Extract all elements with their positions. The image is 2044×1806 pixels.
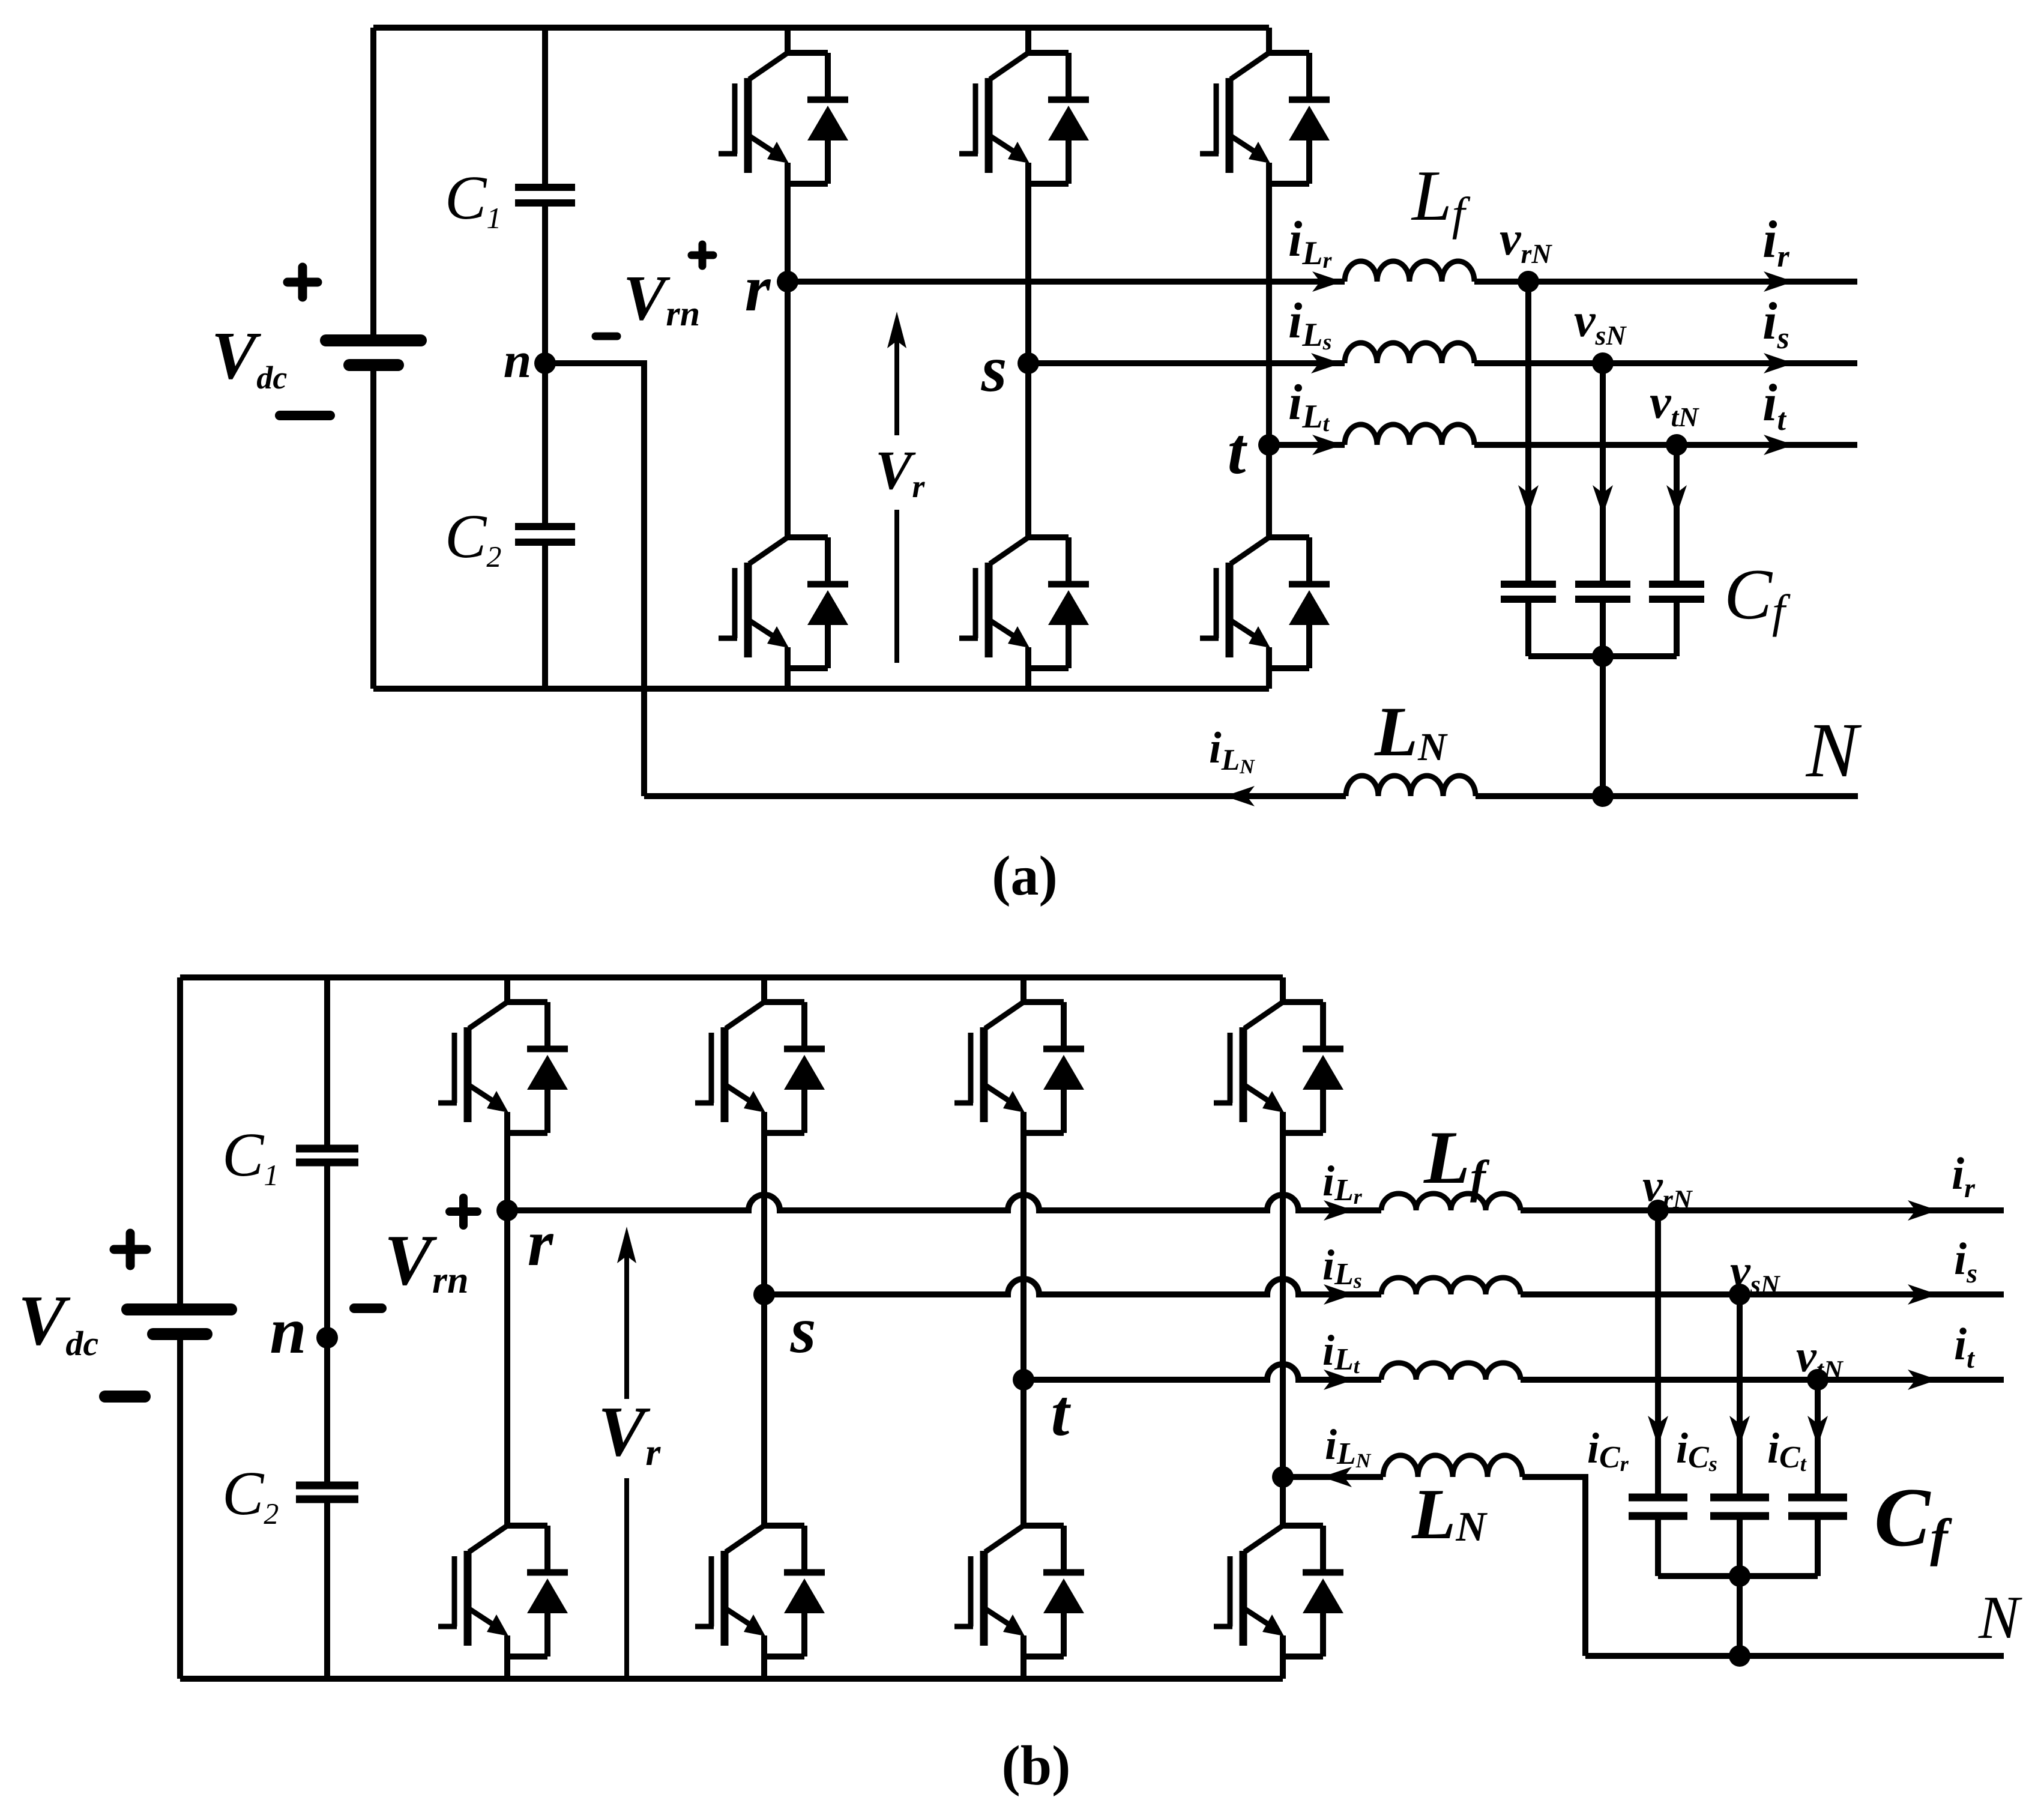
wire: s line from Lf to vsN and output (a) [1474,360,1857,366]
wire: capacitor branch upper (a) [542,28,548,187]
wire: bus down to N line (b) [1737,1576,1743,1656]
wire: DC bus top rail (a) [373,25,1269,31]
node r (b) [496,1200,518,1221]
node capacitor bus center (b) [1729,1565,1750,1587]
IGBT top switch leg 1 with antiparallel diode (a) [719,53,848,184]
IGBT bottom switch leg 2 with antiparallel diode (a) [959,537,1089,668]
wire: phase t line with hop and inductor Lf (b) [1024,1364,1381,1380]
wire: DC bus top rail (b) [180,974,1283,980]
wire: n branch to neutral line (a) [545,363,644,796]
node r (a) [777,271,798,292]
node vrN (b) [1647,1200,1669,1221]
node vsN (a) [1592,352,1614,374]
wire: t line to vtN and output (b) [1521,1377,2004,1383]
wire: leg 1 vertical (b) [504,977,510,1679]
node t (a) [1258,434,1280,456]
wire: C2 to bottom rail (b) [324,1499,330,1679]
svg-text:N: N [1978,1584,2022,1652]
wire: leg 4 vertical (b) [1280,977,1286,1679]
capacitor C2 (b) [296,1482,358,1490]
node vtN (a) [1666,434,1687,456]
wire: phase r line with inductor Lf (a) [788,279,1345,285]
node vsN (b) [1729,1284,1750,1305]
node s (b) [753,1284,775,1305]
IGBT bottom switch leg 3 with antiparallel diode (a) [1200,537,1330,668]
IGBT top switch leg 3 with antiparallel diode (a) [1200,53,1330,184]
filter capacitor Cf phase s (b) [1710,1494,1769,1502]
IGBT bottom switch leg 1 with antiparallel diode (b) [438,1526,568,1657]
wire: capacitor common bus (b) [1658,1573,1818,1579]
wire: DC bus bottom rail (a) [373,686,1269,692]
svg-text:s: s [981,332,1007,405]
wire: r line to vrN and output (b) [1521,1207,2004,1213]
label − battery (a) [280,411,330,420]
wire: left rail lower segment (a) [370,365,376,689]
node neutral leg (b) [1272,1466,1294,1488]
svg-text:(a): (a) [992,845,1058,907]
wire: s capacitor to common bus (a) [1600,599,1606,656]
wire: t capacitor to bus (b) [1815,1516,1821,1576]
wire: phase s line with hops and inductor Lf (b) [764,1279,1381,1294]
label − of Vrn (b) [354,1303,382,1313]
IGBT top switch leg 2 with antiparallel diode (b) [695,1002,825,1133]
svg-text:t: t [1051,1376,1072,1449]
wire: r capacitor to common bus (a) [1525,599,1531,656]
node vtN (b) [1807,1369,1828,1391]
filter capacitor Cf phase t (b) [1788,1494,1847,1502]
IGBT bottom switch leg 2 with antiparallel diode (b) [695,1526,825,1657]
battery Vdc (a) [326,340,421,365]
IGBT top switch leg 2 with antiparallel diode (a) [959,53,1089,184]
wire: neutral line right segment to N (a) [1476,793,1858,799]
wire: r capacitor to bus (b) [1655,1516,1661,1576]
node s (a) [1017,352,1039,374]
capacitor C1 (b) [296,1145,358,1153]
node t (b) [1013,1369,1034,1391]
wire: t line from Lf to vtN and output (a) [1474,442,1857,448]
label + of Vrn (a) [692,244,713,266]
wire: vtN drop to filter capacitor (b) [1815,1380,1821,1497]
label − of Vrn (a) [595,333,617,340]
wire: vrN drop to filter capacitor (b) [1655,1210,1661,1497]
wire: phase t line with inductor Lf (a) [1269,442,1345,448]
wire: left rail upper segment (a) [370,28,376,340]
capacitor C2 (a) [515,523,575,530]
wire: N line (b) [1585,1653,2004,1659]
svg-text:s: s [790,1293,816,1367]
node n (a) [534,352,556,374]
wire: phase r line with hops and inductor Lf (b) [507,1195,1381,1210]
wire: C1 to node n (a) [542,203,548,363]
node n (b) [316,1327,338,1348]
filter capacitor Cf phase s (a) [1575,581,1630,588]
wire: vtN drop to filter capacitor (a) [1674,445,1680,584]
wire: t capacitor to common bus (a) [1674,599,1680,656]
wire: leg 2 vertical (a) [1025,28,1031,689]
svg-text:r: r [528,1206,554,1279]
wire: C2 to bottom rail (a) [542,542,548,689]
wire: r line from Lf to vrN and output (a) [1474,279,1857,285]
node N line junction (b) [1729,1645,1750,1667]
IGBT bottom switch leg 4 with antiparallel diode (b) [1214,1526,1343,1657]
svg-text:t: t [1228,414,1248,488]
wire: C1 to node n (b) [324,1162,330,1338]
IGBT top switch leg 3 with antiparallel diode (b) [954,1002,1084,1133]
wire: left rail lower segment (b) [177,1334,183,1679]
wire: vsN drop to filter capacitor (b) [1737,1294,1743,1497]
label + battery (a) [288,267,318,297]
wire: DC bus bottom rail (b) [180,1676,1283,1682]
IGBT top switch leg 4 with antiparallel diode (b) [1214,1002,1343,1133]
IGBT bottom switch leg 1 with antiparallel diode (a) [719,537,848,668]
wire: leg 3 vertical (a) [1266,28,1272,689]
wire: neutral line with inductor LN (b) [1283,1474,1383,1480]
wire: left rail upper segment (b) [177,977,183,1309]
arrow Vr (a) [887,312,906,663]
svg-text:n: n [504,333,532,388]
filter capacitor Cf phase r (a) [1501,581,1556,588]
svg-text:r: r [745,252,771,325]
label − battery (b) [105,1391,145,1403]
svg-text:(b): (b) [1002,1735,1071,1797]
wire: phase s line with inductor Lf (a) [1028,360,1345,366]
wire: capacitor branch upper (b) [324,977,330,1149]
wire: bus to neutral line (a) [1600,656,1606,796]
wire: node n to C2 (a) [542,363,548,527]
node vrN (a) [1518,271,1539,292]
wire: node n to C2 (b) [324,1338,330,1485]
filter capacitor Cf phase t (a) [1649,581,1704,588]
IGBT bottom switch leg 3 with antiparallel diode (b) [954,1526,1084,1657]
capacitor C1 (a) [515,184,575,191]
wire: leg 3 vertical (b) [1020,977,1027,1679]
wire: neutral from LN down to N line (b) [1522,1477,1585,1656]
wire: vsN drop to filter capacitor (a) [1600,363,1606,584]
IGBT top switch leg 1 with antiparallel diode (b) [438,1002,568,1133]
wire: neutral line with inductor LN (a) [644,793,1346,799]
arrow Vr (b) [617,1227,636,1679]
wire: vrN drop to filter capacitor (a) [1525,282,1531,584]
wire: capacitor common bus (a) [1528,653,1677,659]
node capacitor bus center (a) [1592,645,1614,667]
svg-text:n: n [270,1294,306,1367]
wire: s capacitor to bus (b) [1737,1516,1743,1576]
label + battery (b) [114,1233,146,1266]
filter capacitor Cf phase r (b) [1629,1494,1687,1502]
node neutral junction (a) [1592,785,1614,807]
wire: s line to vsN and output (b) [1521,1291,2004,1297]
wire: leg 2 vertical (b) [761,977,767,1679]
svg-text:N: N [1806,707,1862,794]
battery Vdc (b) [127,1309,231,1334]
label + of Vrn (b) [450,1198,477,1225]
wire: leg 1 vertical (a) [785,28,791,689]
